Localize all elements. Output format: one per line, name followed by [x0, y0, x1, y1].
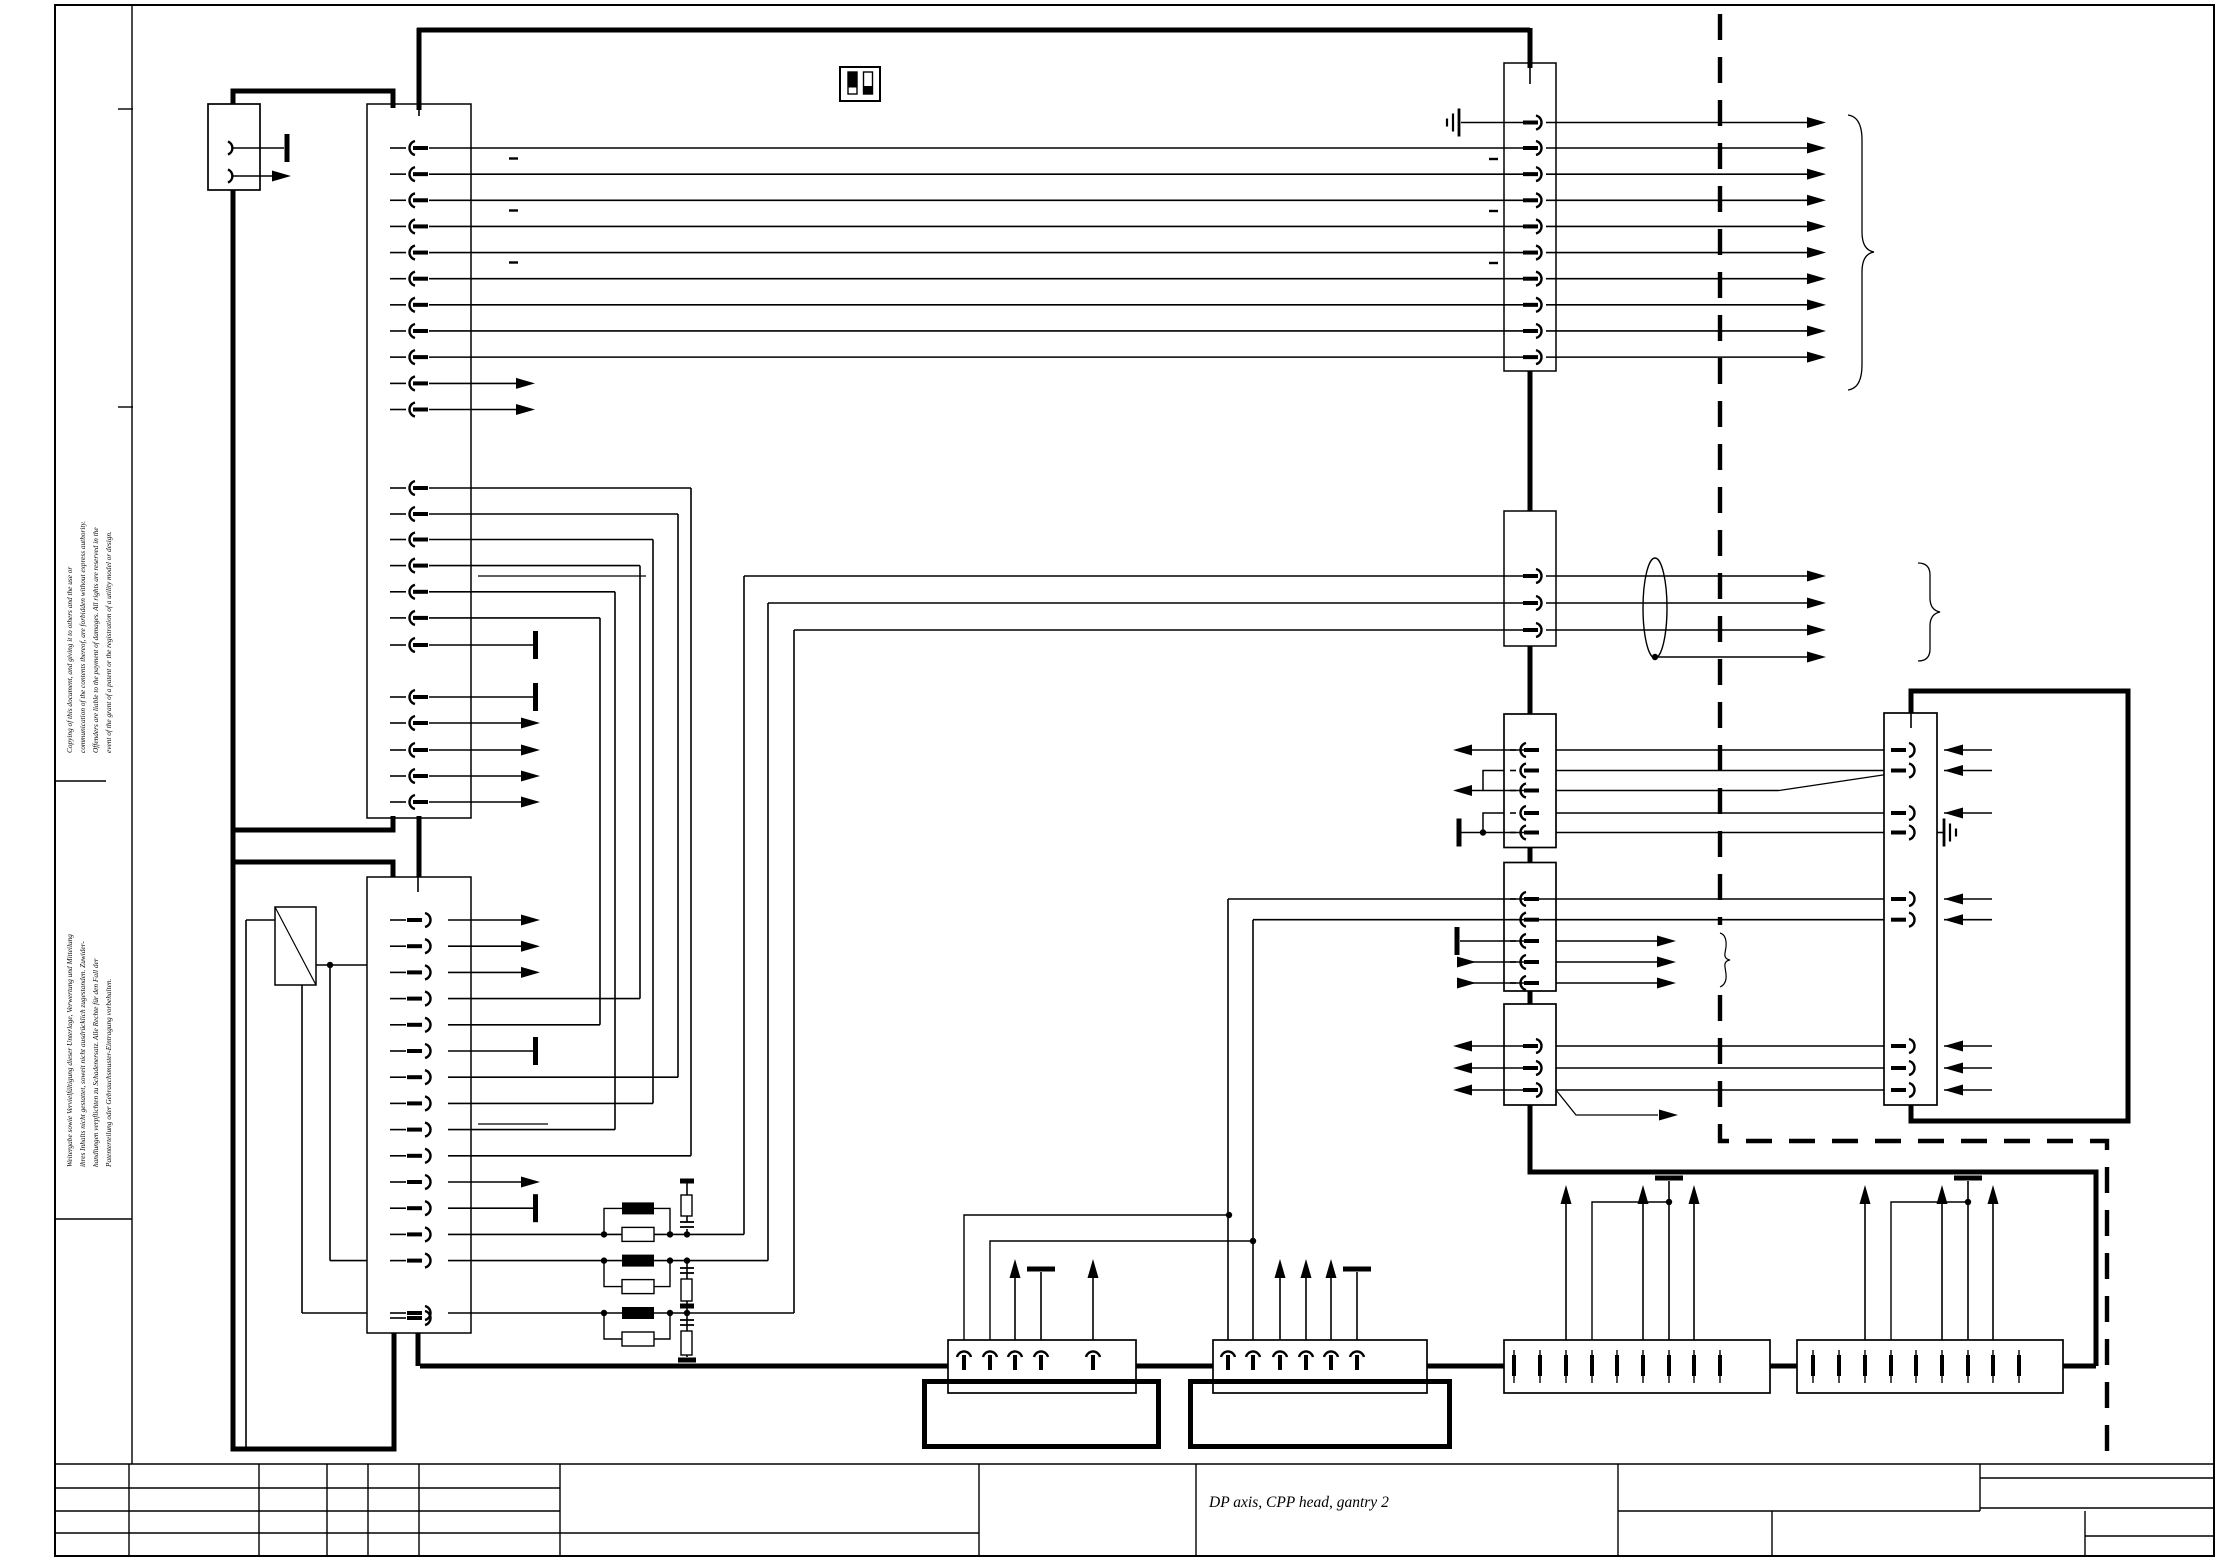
svg-text:event of the grant of a patent: event of the grant of a patent or the re… — [104, 531, 113, 753]
svg-text:Offenders are liable to the pa: Offenders are liable to the payment of d… — [91, 527, 100, 753]
svg-text:DP axis, CPP head, gantry 2: DP axis, CPP head, gantry 2 — [1208, 1494, 1389, 1511]
svg-text:handlungen verpflichten zu Sch: handlungen verpflichten zu Schadenersatz… — [91, 958, 100, 1167]
svg-text:communication of the contents: communication of the contents thereof, a… — [78, 521, 87, 753]
svg-text:Copying of this document, and: Copying of this document, and giving it … — [65, 567, 74, 753]
svg-text:ihres Inhalts nicht gestattet,: ihres Inhalts nicht gestattet, soweit ni… — [78, 941, 87, 1167]
svg-text:Patenterteilung oder Gebrauchs: Patenterteilung oder Gebrauchsmuster-Ein… — [104, 978, 113, 1168]
svg-text:Weitergabe sowie Vervielfältig: Weitergabe sowie Vervielfältigung dieser… — [65, 934, 74, 1167]
